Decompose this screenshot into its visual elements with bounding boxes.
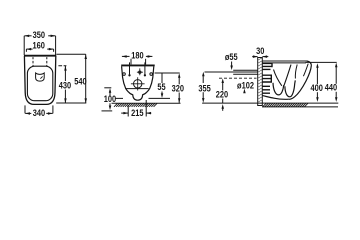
dim 320 up arrow at axis xyxy=(178,73,181,78)
toilet outline (plan view) xyxy=(24,56,55,105)
dim 100 up arrow xyxy=(109,88,112,93)
floor line (middle figure) xyxy=(112,102,181,104)
dim 160 line right seg + arrow + stub xyxy=(47,48,53,50)
dim 180 ext right xyxy=(145,59,147,65)
dim 180 ext left xyxy=(130,59,132,65)
dim 340 line right seg + arrow xyxy=(46,112,52,114)
large outlet crosshair circle xyxy=(134,80,142,88)
dim 430 up arrow xyxy=(64,66,67,71)
svg-text:55: 55 xyxy=(157,81,166,92)
bracket stack 3 (outlet lower) xyxy=(262,86,270,93)
dim 215 ext right xyxy=(145,100,147,117)
dim 430 down arrow xyxy=(64,98,67,103)
svg-text:540: 540 xyxy=(74,76,87,87)
top ext to 400/440 xyxy=(306,61,337,63)
toilet side: top seat double line xyxy=(262,60,307,62)
bowl funnel left line xyxy=(274,70,282,86)
svg-text:ø102: ø102 xyxy=(237,80,254,91)
hanger stem right xyxy=(144,62,146,74)
toilet top edge (thick) xyxy=(121,64,155,66)
fixing hole dashed line right xyxy=(46,57,48,66)
dim 400 line + arrows xyxy=(316,66,318,85)
svg-text:220: 220 xyxy=(216,89,229,100)
small inlet crosshair circle xyxy=(139,71,141,73)
dim 540 up arrow xyxy=(85,54,88,59)
wall (hatched strip) xyxy=(258,58,263,106)
inner rim (bowl opening) xyxy=(27,66,52,101)
dim 55 line upper xyxy=(161,73,163,83)
floor hatching (middle) xyxy=(114,103,157,107)
toilet top edge (wall line, thick) xyxy=(24,55,56,57)
svg-text:30: 30 xyxy=(256,45,265,56)
o55 label arrow xyxy=(231,62,233,67)
dim 215 ext left xyxy=(127,105,129,117)
dim 540 line xyxy=(85,54,87,103)
dim 160 line left seg + arrow + stub xyxy=(26,48,32,50)
bowl-bottom datum line (line A) xyxy=(116,97,171,99)
dim 30 left tail + arrow xyxy=(252,56,257,58)
fixing hole dashed line left xyxy=(32,57,34,66)
rim bottom line inside xyxy=(125,88,148,90)
dim 180 left arrow + tail xyxy=(122,55,130,57)
svg-text:440: 440 xyxy=(325,82,338,93)
floor hatching (right) xyxy=(263,103,308,107)
rim inner diagonal at nose xyxy=(303,64,308,77)
dim 540 top extension xyxy=(56,53,85,55)
o102 label arrow (below text pointing up) xyxy=(243,89,246,94)
hanger dot left xyxy=(128,74,130,76)
dim 340 left ext xyxy=(24,105,26,113)
inlet pipe through-wall stub xyxy=(233,70,258,74)
dim 215 right tail + arrow xyxy=(146,112,151,114)
side fixing hole right xyxy=(150,73,153,76)
lower floor line xyxy=(262,106,338,108)
trap right U xyxy=(285,80,295,96)
hanger dot right xyxy=(144,74,146,76)
dim 355 up arrow + line xyxy=(202,72,205,77)
svg-text:180: 180 xyxy=(131,50,144,61)
dim 350 line right seg + arrow xyxy=(48,35,55,37)
hole axis line to 320 xyxy=(155,72,180,74)
dim 100 line upper xyxy=(109,91,111,97)
dim 430 line upper xyxy=(64,66,66,81)
svg-text:160: 160 xyxy=(33,40,46,51)
dim 430 top dashed extension xyxy=(58,65,66,67)
toilet side: bottom silhouette xyxy=(262,96,289,100)
dim 100 down arrow xyxy=(109,106,112,111)
hanger stem left xyxy=(129,62,131,74)
dim 220 below-floor arrow + tail xyxy=(222,104,225,109)
dim 340 right ext xyxy=(52,105,54,113)
side fixing hole left xyxy=(123,73,126,76)
svg-text:100: 100 xyxy=(104,93,117,104)
floor line (right figure) xyxy=(202,102,338,104)
dim 100 bottom terminal line xyxy=(102,110,113,112)
svg-text:400: 400 xyxy=(311,82,324,93)
svg-text:215: 215 xyxy=(131,107,144,118)
dim 180 right arrow + tail xyxy=(146,55,153,57)
small sump/bowl detail xyxy=(36,73,45,81)
dim 350 extension line right xyxy=(55,36,57,55)
dim 320 line upper xyxy=(178,76,180,84)
bottom extension line (shared 430/540) xyxy=(56,102,86,104)
svg-text:355: 355 xyxy=(198,82,211,93)
toilet side: front silhouette xyxy=(289,61,311,99)
svg-text:320: 320 xyxy=(172,83,185,94)
dim 55 line lower + down arrow to line A xyxy=(161,92,163,94)
outlet axis dashed line xyxy=(219,77,257,79)
dim 100 top ext xyxy=(104,87,111,89)
svg-text:ø55: ø55 xyxy=(225,51,238,62)
dim 540 down arrow xyxy=(85,98,88,103)
dim 340 line left seg + arrow xyxy=(25,112,31,114)
toilet rear outline xyxy=(122,66,154,100)
dim 350 extension line left xyxy=(23,36,25,55)
bracket stack 1 (inlet rail) xyxy=(262,63,272,70)
dim 430 line lower xyxy=(64,90,66,103)
bowl funnel right line xyxy=(284,65,291,86)
trap left U xyxy=(273,83,284,95)
bowl back line xyxy=(295,65,297,79)
svg-text:340: 340 xyxy=(33,107,46,118)
svg-text:430: 430 xyxy=(59,79,72,90)
dim 220 up arrow + line xyxy=(222,78,225,83)
dim 320 line lower + down arrow xyxy=(178,93,180,103)
bracket stack 2 (outlet upper) xyxy=(262,75,271,83)
dim 30 right tail + arrow xyxy=(262,56,268,58)
dim 355 down arrow xyxy=(202,98,205,103)
dim 215 left tail + arrow xyxy=(121,112,128,114)
dim 100 line lower xyxy=(109,103,111,106)
inlet axis line xyxy=(205,71,258,73)
dim 350 line left seg + arrow xyxy=(24,35,31,37)
sump inner shadow xyxy=(40,76,42,78)
dim 440 line + arrows xyxy=(335,66,337,84)
